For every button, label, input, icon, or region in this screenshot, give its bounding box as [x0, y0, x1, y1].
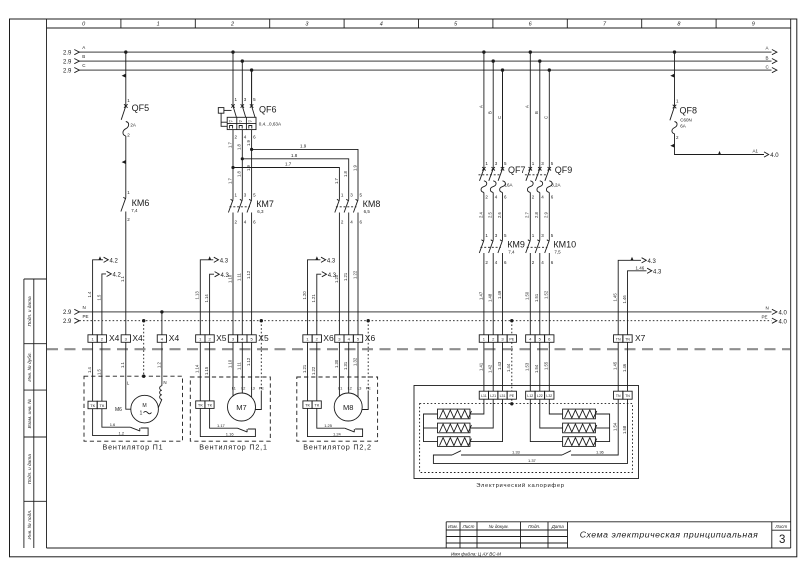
svg-text:16А: 16А: [505, 182, 513, 187]
svg-text:Вентилятор П2,1: Вентилятор П2,1: [199, 442, 268, 451]
svg-text:А1: А1: [753, 148, 759, 153]
circuit breaker QF7: [479, 70, 526, 192]
terminal X7:2: [489, 335, 498, 343]
inner frame right line: [790, 19, 792, 548]
svg-text:1.53: 1.53: [525, 362, 530, 371]
svg-text:6,5: 6,5: [364, 209, 371, 214]
svg-text:L1: L1: [232, 386, 236, 390]
svg-text:1.42: 1.42: [488, 364, 493, 373]
svg-text:1.10: 1.10: [227, 359, 232, 368]
terminal X7:TN1: [614, 335, 623, 343]
svg-text:Лист: Лист: [774, 524, 787, 529]
svg-text:1.55: 1.55: [544, 361, 549, 370]
svg-text:1.31: 1.31: [343, 361, 348, 370]
contactor KM7: [228, 199, 274, 214]
svg-text:L2: L2: [348, 386, 352, 390]
node tap QF9 phase A: [529, 50, 532, 53]
svg-text:1.6: 1.6: [110, 422, 116, 427]
wires KM10 to X7: [530, 253, 549, 335]
thermal contact terminal TK2 P1: [97, 401, 106, 409]
svg-text:РЕ: РЕ: [259, 386, 265, 390]
wire bus A to QF5: [125, 52, 127, 106]
svg-text:РЕ: РЕ: [509, 338, 514, 342]
wire X6:2 to TK: [316, 342, 318, 401]
wires QF7 to KM9: [484, 193, 503, 241]
svg-text:Лист: Лист: [462, 524, 475, 529]
svg-text:1.8: 1.8: [291, 153, 298, 158]
terminal X6:2: [312, 335, 321, 343]
svg-text:1.21: 1.21: [311, 294, 316, 303]
wires buses to QF9: [530, 52, 549, 169]
svg-text:4.2: 4.2: [110, 258, 119, 264]
svg-text:L1: L1: [338, 386, 342, 390]
wires X7:TN to heater terminals: [618, 342, 627, 391]
thermal contact loop P2.2: [308, 408, 363, 436]
svg-text:QF7: QF7: [508, 165, 526, 175]
control tap wire to 4.2 (b): [96, 271, 121, 335]
fan unit P2.1 enclosure: [190, 377, 270, 441]
contactor contact KM6: [121, 197, 149, 222]
svg-text:В: В: [534, 111, 539, 114]
svg-text:N: N: [163, 380, 166, 385]
wire 1.7 to KM8 pin 1: [233, 168, 339, 200]
svg-text:М8: М8: [343, 403, 353, 412]
svg-text:1.45: 1.45: [613, 293, 618, 302]
svg-text:1.58: 1.58: [622, 425, 627, 434]
heater terminal L22: [535, 391, 544, 399]
wires buses to QF7: [484, 52, 503, 169]
svg-text:М7: М7: [236, 403, 246, 412]
svg-text:ТN: ТN: [625, 338, 630, 342]
svg-text:ТN: ТN: [625, 394, 630, 398]
svg-text:КМ6: КМ6: [132, 198, 150, 208]
svg-text:L2: L2: [241, 386, 245, 390]
heater enclosure: [414, 386, 639, 479]
svg-text:Х5: Х5: [216, 333, 227, 343]
svg-text:Х7: Х7: [635, 333, 646, 343]
wire direction tick: [670, 74, 674, 78]
wire N to X4:4: [161, 312, 163, 335]
svg-text:1.8: 1.8: [343, 171, 348, 177]
svg-text:Вентилятор П2,2: Вентилятор П2,2: [303, 442, 372, 451]
heater terminal L21: [489, 391, 498, 399]
svg-text:ТК: ТК: [90, 403, 95, 408]
contactor KM8: [335, 199, 381, 214]
svg-text:1.11: 1.11: [237, 361, 242, 370]
terminal X4:3: [121, 335, 130, 343]
svg-text:1.48: 1.48: [488, 293, 493, 302]
svg-text:0,4...0,63А: 0,4...0,63А: [259, 121, 282, 126]
svg-text:1.41: 1.41: [478, 362, 483, 371]
junction node wire 1.9: [250, 148, 253, 151]
svg-text:L11: L11: [481, 394, 487, 398]
svg-text:QF9: QF9: [555, 165, 573, 175]
circuit breaker QF5: [121, 103, 149, 138]
wire direction tick: [122, 74, 126, 78]
svg-text:ТN: ТN: [616, 394, 621, 398]
node tap QF8 phase A: [673, 50, 676, 53]
svg-text:1.36: 1.36: [596, 450, 605, 455]
fan unit P1 enclosure: [84, 376, 183, 441]
svg-text:1.32: 1.32: [352, 357, 357, 366]
node PE tap X7: [510, 319, 513, 322]
svg-text:1.4: 1.4: [87, 291, 92, 297]
wires QF9 to KM10: [530, 193, 549, 241]
control tap to 4.3 fan P2.2 (a): [302, 256, 336, 335]
node tap QF7 phase B: [492, 59, 495, 62]
PE link to motor M7: [255, 391, 261, 410]
svg-text:7,4: 7,4: [131, 208, 138, 213]
svg-text:4.0: 4.0: [779, 319, 788, 325]
svg-text:2.9: 2.9: [63, 50, 72, 56]
motor protection breaker QF6: [218, 70, 282, 130]
terminal X7:6: [545, 335, 554, 343]
motor M7: [228, 393, 256, 421]
terminal X6:3: [335, 335, 344, 343]
svg-text:Изм.: Изм.: [448, 524, 458, 529]
fan unit P2.2 enclosure: [297, 377, 378, 441]
wire direction tick: [122, 160, 126, 164]
svg-text:1.17: 1.17: [217, 423, 226, 428]
svg-text:Схема электрическая принципиал: Схема электрическая принципиальная: [580, 530, 759, 540]
node PE tap fan P2.1: [260, 319, 263, 322]
neutral bus N: [63, 305, 788, 316]
svg-text:1.14: 1.14: [195, 364, 200, 373]
svg-text:2.5: 2.5: [488, 212, 493, 218]
node tap QF9 phase C: [548, 68, 551, 71]
thermal contact loop P1: [93, 409, 149, 436]
node N tap for X4:4: [160, 310, 163, 313]
wire N X4:4 to aux winding: [156, 342, 166, 386]
node PE tap fan P1: [142, 319, 145, 322]
phase bus A: [63, 45, 777, 56]
control tap to 4.3 fan P2.1 (a): [195, 256, 229, 335]
svg-text:1.51: 1.51: [534, 293, 539, 302]
contactor KM9: [479, 239, 525, 254]
svg-text:А: А: [478, 105, 483, 108]
heater terminal L32: [545, 391, 554, 399]
wires KM8 to X6: [339, 213, 358, 335]
svg-text:1.5: 1.5: [96, 294, 101, 300]
terminal X5:5: [247, 335, 256, 343]
svg-text:2: 2: [230, 22, 234, 28]
node tap QF7 phase A: [482, 50, 485, 53]
svg-text:Имя файла: Ц АУ ВС-М: Имя файла: Ц АУ ВС-М: [451, 550, 501, 556]
svg-text:1.22: 1.22: [352, 270, 357, 279]
svg-text:1.9: 1.9: [352, 165, 357, 171]
wire 1.8 to KM8 pin 3: [242, 159, 348, 200]
svg-text:1.5: 1.5: [96, 369, 101, 375]
svg-text:1.1: 1.1: [120, 362, 125, 368]
inner frame left line: [46, 19, 48, 548]
thermal contact terminal TK1 P1: [88, 401, 97, 409]
svg-text:9: 9: [752, 22, 755, 28]
svg-text:№ докум.: № докум.: [489, 524, 509, 529]
svg-text:B: B: [766, 55, 769, 60]
direction arrow on A1 wire: [718, 151, 721, 155]
off-sheet arrow A1 to 4.0: [764, 152, 769, 157]
heating element R2: [438, 423, 472, 433]
node tap QF6 phase C: [250, 68, 253, 71]
wires X5:3,4,5 to motor M7: [233, 342, 252, 397]
terminal X7:5: [535, 335, 544, 343]
svg-text:1.2: 1.2: [119, 430, 125, 435]
svg-text:1.7: 1.7: [227, 178, 232, 184]
PE wire to X7:PE: [511, 321, 513, 335]
svg-text:РЕ: РЕ: [509, 394, 514, 398]
svg-text:1.14: 1.14: [204, 294, 209, 303]
terminal X5:2: [205, 335, 214, 343]
terminal X5:1: [196, 335, 205, 343]
svg-text:L3: L3: [357, 386, 361, 390]
svg-text:Х4: Х4: [169, 333, 180, 343]
svg-text:1.24: 1.24: [333, 431, 342, 436]
svg-text:1.7: 1.7: [334, 178, 339, 184]
svg-text:N: N: [766, 305, 769, 310]
svg-text:1.30: 1.30: [334, 359, 339, 368]
svg-text:1.22: 1.22: [311, 366, 316, 375]
svg-text:L12: L12: [527, 394, 533, 398]
svg-text:1.8: 1.8: [237, 144, 242, 150]
svg-text:1.54: 1.54: [613, 422, 618, 431]
svg-text:Х4: Х4: [109, 333, 120, 343]
terminal X4:1: [88, 335, 97, 343]
svg-text:2.9: 2.9: [63, 319, 72, 325]
svg-text:1.46: 1.46: [622, 295, 627, 304]
svg-text:1.9: 1.9: [246, 140, 251, 146]
svg-text:Х6: Х6: [365, 333, 376, 343]
inner frame bottom line: [47, 547, 791, 549]
svg-text:1.37: 1.37: [528, 458, 537, 463]
svg-text:1.12: 1.12: [246, 270, 251, 279]
svg-text:2.9: 2.9: [63, 68, 72, 74]
phase bus B: [63, 54, 777, 65]
terminal X7:TN2: [623, 335, 632, 343]
svg-text:2.9: 2.9: [63, 310, 72, 316]
svg-text:L21: L21: [490, 394, 496, 398]
svg-text:1: 1: [140, 410, 143, 416]
svg-text:4.3: 4.3: [648, 259, 657, 265]
heater terminal L11: [479, 391, 488, 399]
svg-text:1.9: 1.9: [300, 144, 307, 149]
thermal contact loop P2.1: [200, 408, 255, 436]
svg-text:ТN: ТN: [616, 338, 621, 342]
heater inner dotted boundary: [420, 404, 633, 473]
wires KM7 to X5: [233, 213, 252, 335]
svg-text:Дата: Дата: [551, 524, 565, 529]
svg-text:1.4: 1.4: [87, 367, 92, 373]
svg-text:РЕ: РЕ: [366, 386, 372, 390]
svg-text:Подп. и дата: Подп. и дата: [27, 296, 33, 326]
svg-text:ТК: ТК: [207, 403, 212, 408]
cabinet boundary dashed line: [47, 348, 790, 350]
junction node wire 1.8: [241, 157, 244, 160]
svg-text:ТК: ТК: [198, 403, 203, 408]
terminal X4:4: [157, 335, 166, 343]
wires buses to QF6 pins 1,3,5: [233, 52, 252, 106]
svg-text:N: N: [83, 305, 86, 310]
svg-text:1.21: 1.21: [302, 364, 307, 373]
svg-text:PE: PE: [762, 315, 768, 320]
svg-text:1.52: 1.52: [544, 290, 549, 299]
svg-text:6,3: 6,3: [257, 209, 264, 214]
thermal contact terminal TK2 P2.2: [312, 401, 321, 409]
svg-text:2.9: 2.9: [63, 59, 72, 65]
node tap QF9 phase B: [538, 59, 541, 62]
svg-text:4.3: 4.3: [328, 273, 337, 279]
svg-text:1.7: 1.7: [227, 142, 232, 148]
node tap QF5 on bus A: [124, 50, 127, 53]
wire QF5 to KM6: [125, 136, 127, 198]
PE wire to fan P2.1: [260, 321, 262, 391]
svg-text:М6: М6: [115, 407, 122, 413]
control tap to 4.3 fan P2.1 (b): [204, 272, 230, 335]
svg-text:1.45: 1.45: [613, 361, 618, 370]
svg-text:1.47: 1.47: [478, 291, 483, 300]
wire bus A to QF8: [674, 52, 676, 106]
wire X4:2 to TK: [101, 342, 103, 401]
svg-text:4.3: 4.3: [653, 269, 662, 275]
thermal cutout loop TN: [433, 399, 627, 463]
terminal X7:PE: [507, 335, 516, 343]
terminal X6:1: [303, 335, 312, 343]
title block grid: [446, 522, 791, 548]
svg-text:1.21: 1.21: [343, 272, 348, 281]
svg-text:7,5: 7,5: [554, 250, 561, 255]
svg-text:C60N: C60N: [680, 117, 692, 122]
svg-text:2.4: 2.4: [478, 212, 483, 218]
control tap to 4.3 fan P2.2 (b): [311, 272, 337, 335]
motor M8: [334, 393, 362, 421]
svg-text:С: С: [544, 116, 549, 119]
wire direction tick: [670, 144, 674, 148]
svg-text:7,4: 7,4: [508, 250, 515, 255]
svg-text:3: 3: [779, 534, 785, 546]
svg-text:КМ9: КМ9: [507, 239, 525, 249]
heater terminal L12: [526, 391, 535, 399]
svg-text:A: A: [82, 45, 85, 50]
svg-text:Взам. инв. №: Взам. инв. №: [27, 399, 33, 429]
left margin rotated labels: [27, 296, 33, 540]
svg-text:ТК: ТК: [100, 403, 105, 408]
heating element R5: [563, 423, 597, 433]
svg-text:2.9: 2.9: [544, 212, 549, 218]
left margin column lines: [24, 279, 47, 548]
svg-text:КМ8: КМ8: [363, 199, 381, 209]
star bus right bank: [595, 414, 609, 442]
svg-text:Х5: Х5: [258, 333, 269, 343]
control tap TN X7 (b): [622, 265, 662, 335]
motor M6: [115, 395, 158, 423]
heater terminal L31: [498, 391, 507, 399]
svg-text:L31: L31: [500, 394, 506, 398]
wires X7:1,2,3 to heater terminals: [484, 342, 503, 391]
heating element R3: [438, 437, 472, 447]
terminal X7:3: [498, 335, 507, 343]
svg-text:1.12: 1.12: [246, 357, 251, 366]
svg-text:Подп. и дата: Подп. и дата: [27, 454, 33, 484]
svg-text:1.7: 1.7: [285, 162, 292, 167]
PE wire to fan P2.2: [367, 321, 369, 391]
svg-text:Инв. № дубл.: Инв. № дубл.: [27, 352, 33, 382]
svg-text:С: С: [497, 116, 502, 119]
wire X4:1 to TK: [92, 342, 94, 401]
zone ruler dividers: [121, 19, 716, 28]
svg-text:L22: L22: [537, 394, 543, 398]
svg-text:4.0: 4.0: [770, 153, 779, 159]
svg-text:КМ10: КМ10: [553, 239, 576, 249]
control tap TN X7 (a): [613, 257, 657, 335]
svg-text:1.13: 1.13: [195, 291, 200, 300]
heating element R1: [438, 409, 472, 419]
svg-text:1.9: 1.9: [246, 165, 251, 171]
svg-text:ТК: ТК: [314, 403, 319, 408]
title block headers: [448, 524, 787, 529]
node tap QF7 phase C: [501, 68, 504, 71]
thermal contact terminal TK1 P2.2: [303, 401, 312, 409]
coil to motor: [158, 399, 162, 408]
svg-text:Вентилятор П1: Вентилятор П1: [103, 442, 164, 451]
circuit breaker QF8: [670, 105, 697, 140]
node tap QF6 phase B: [241, 59, 244, 62]
svg-text:QF5: QF5: [132, 103, 150, 113]
thermal contact terminal TK1 P2.1: [196, 401, 205, 409]
svg-text:A: A: [766, 46, 769, 51]
svg-text:B: B: [82, 54, 85, 59]
wires X7:4,5,6 to heater terminals: [530, 342, 549, 391]
terminal X5:4: [238, 335, 247, 343]
svg-text:1.20: 1.20: [302, 291, 307, 300]
svg-text:1.46: 1.46: [636, 265, 645, 270]
wire 1.9 to KM8 pin 5: [252, 149, 358, 199]
heating element R4: [563, 409, 597, 419]
svg-text:3,2А: 3,2А: [551, 182, 560, 187]
svg-text:L32: L32: [546, 394, 552, 398]
svg-text:А: А: [525, 105, 530, 108]
star bus left bank: [424, 414, 438, 442]
terminal X7:1: [479, 335, 488, 343]
zone ruler bottom line: [47, 27, 791, 29]
thermal contact terminal TK2 P2.1: [205, 401, 214, 409]
circuit breaker QF9: [525, 165, 572, 193]
junction node wire 1.7: [231, 166, 234, 169]
svg-text:1.43: 1.43: [497, 361, 502, 370]
svg-text:1.54: 1.54: [534, 364, 539, 373]
svg-text:4.0: 4.0: [779, 310, 788, 316]
svg-text:ТК: ТК: [305, 403, 310, 408]
terminal X7:4: [526, 335, 535, 343]
svg-text:2А: 2А: [130, 122, 136, 127]
svg-text:1.2: 1.2: [156, 362, 161, 368]
PE link to motor M8: [362, 391, 368, 410]
svg-text:М: М: [142, 403, 146, 409]
terminal X5:3: [228, 335, 237, 343]
svg-text:1.33: 1.33: [512, 450, 521, 455]
svg-text:Х4: Х4: [132, 333, 143, 343]
svg-text:1.15: 1.15: [204, 366, 209, 375]
svg-text:Инв. № подл.: Инв. № подл.: [27, 510, 33, 540]
svg-text:L3: L3: [251, 386, 255, 390]
svg-text:1.49: 1.49: [497, 290, 502, 299]
svg-text:1.44: 1.44: [506, 363, 511, 372]
svg-text:4: 4: [380, 22, 383, 28]
svg-text:4.3: 4.3: [221, 273, 230, 279]
feeds left bank from L11 L21 L31: [470, 399, 503, 441]
wire X5:1 to TK: [199, 342, 201, 401]
protective earth bus PE: [63, 314, 788, 325]
svg-text:1.25: 1.25: [324, 423, 333, 428]
terminal X6:5: [353, 335, 362, 343]
